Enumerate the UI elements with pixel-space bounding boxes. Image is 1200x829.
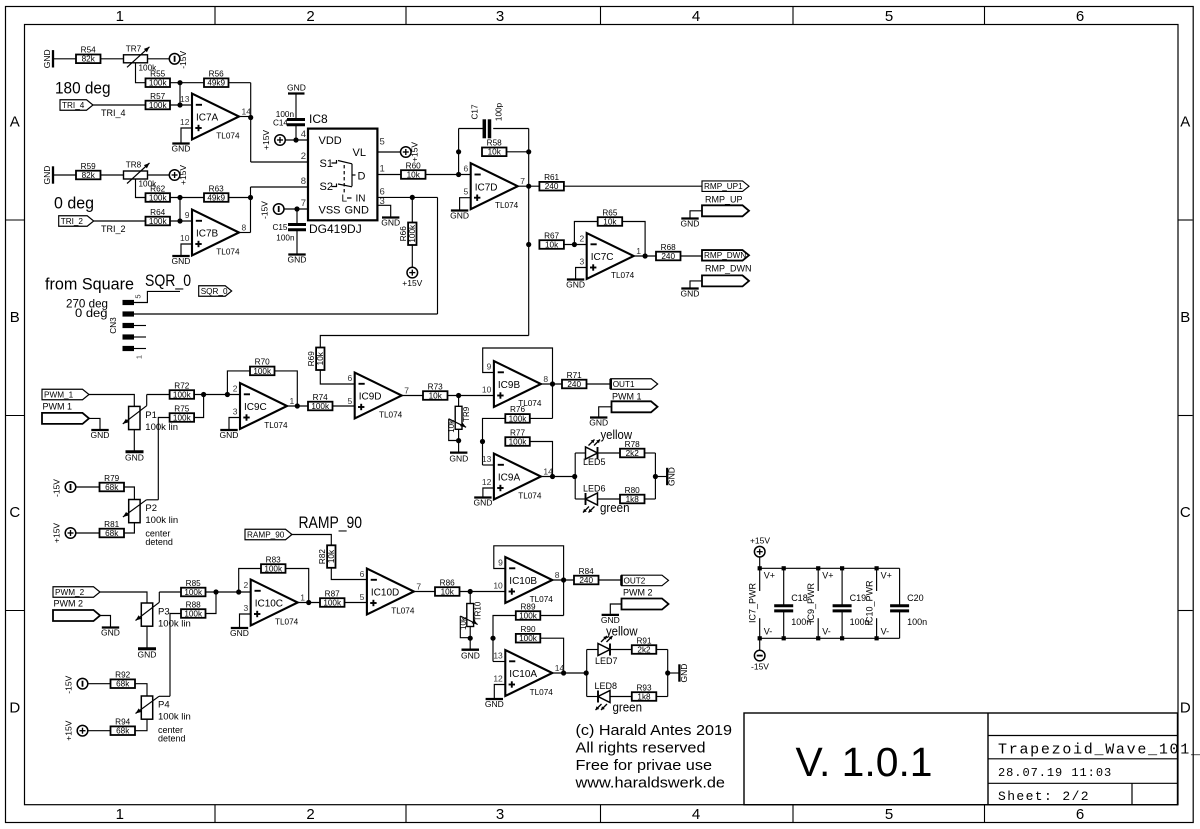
svg-text:C: C [1180, 504, 1191, 521]
svg-text:A: A [10, 113, 20, 130]
svg-text:RMP_UP1: RMP_UP1 [704, 182, 743, 191]
svg-text:GND: GND [220, 430, 239, 440]
svg-text:100k lin: 100k lin [145, 515, 178, 526]
svg-text:R74: R74 [313, 393, 328, 402]
svg-text:9: 9 [487, 362, 492, 372]
svg-text:+15V: +15V [261, 130, 271, 150]
svg-text:R60: R60 [406, 161, 421, 170]
svg-text:10k: 10k [327, 549, 336, 563]
svg-text:R54: R54 [81, 46, 96, 55]
svg-text:100k: 100k [408, 224, 417, 243]
svg-text:TL074: TL074 [216, 132, 240, 141]
svg-text:P3: P3 [158, 607, 170, 618]
svg-text:6: 6 [463, 164, 468, 174]
svg-text:100k: 100k [253, 367, 272, 376]
svg-text:R68: R68 [661, 243, 676, 252]
svg-text:180 deg: 180 deg [55, 80, 111, 98]
svg-text:1: 1 [636, 246, 641, 256]
svg-text:TL074: TL074 [611, 271, 635, 280]
svg-text:3: 3 [243, 603, 248, 613]
svg-text:R64: R64 [150, 208, 165, 217]
svg-text:82k: 82k [82, 55, 96, 64]
svg-text:R77: R77 [510, 428, 525, 437]
svg-text:V-: V- [822, 627, 831, 637]
svg-text:-15V: -15V [751, 662, 769, 672]
svg-text:GND: GND [450, 211, 469, 221]
svg-text:49k9: 49k9 [207, 79, 225, 88]
svg-text:V+: V+ [822, 571, 833, 581]
svg-text:R91: R91 [636, 636, 651, 645]
svg-text:13: 13 [493, 651, 503, 661]
svg-text:49k9: 49k9 [207, 193, 225, 202]
svg-text:9: 9 [185, 210, 190, 220]
svg-text:P4: P4 [158, 700, 170, 711]
svg-text:1: 1 [116, 8, 124, 25]
svg-text:L: L [342, 194, 348, 205]
svg-text:V+: V+ [881, 571, 892, 581]
svg-text:100k: 100k [173, 390, 192, 399]
svg-text:12: 12 [180, 117, 190, 127]
svg-text:IC10C: IC10C [255, 599, 283, 610]
svg-text:10k: 10k [545, 240, 559, 249]
svg-text:GND: GND [288, 255, 307, 265]
svg-text:R89: R89 [520, 602, 535, 611]
svg-text:D: D [1180, 699, 1191, 716]
svg-text:1: 1 [290, 396, 295, 406]
svg-text:5: 5 [360, 592, 365, 602]
svg-text:10k: 10k [316, 351, 325, 365]
svg-text:C: C [9, 504, 20, 521]
svg-text:100k: 100k [149, 101, 168, 110]
svg-text:5: 5 [380, 137, 385, 148]
svg-text:R79: R79 [104, 474, 119, 483]
svg-text:R88: R88 [186, 600, 201, 609]
svg-text:Sheet: 2/2: Sheet: 2/2 [998, 789, 1090, 804]
svg-text:S2: S2 [320, 181, 333, 193]
svg-text:10k: 10k [603, 217, 617, 226]
svg-text:www.haraldswerk.de: www.haraldswerk.de [574, 775, 725, 792]
svg-text:IC9C: IC9C [244, 402, 267, 413]
svg-text:100k: 100k [184, 609, 203, 618]
svg-text:68k: 68k [116, 727, 130, 736]
svg-text:1: 1 [300, 593, 305, 603]
svg-text:V. 1.0.1: V. 1.0.1 [796, 739, 933, 785]
svg-text:100k: 100k [173, 413, 192, 422]
svg-text:R80: R80 [625, 486, 640, 495]
svg-text:Trapezoid_Wave_101_: Trapezoid_Wave_101_ [998, 741, 1200, 758]
svg-text:R59: R59 [81, 162, 96, 171]
svg-text:OUT2: OUT2 [624, 576, 646, 585]
svg-text:OUT1: OUT1 [613, 380, 635, 389]
svg-text:LED8: LED8 [595, 681, 618, 691]
svg-text:D: D [9, 699, 20, 716]
svg-text:detend: detend [145, 537, 173, 547]
svg-text:green: green [613, 700, 643, 715]
svg-text:7: 7 [404, 386, 409, 396]
svg-text:IC7_PWR: IC7_PWR [748, 582, 758, 623]
svg-text:LED6: LED6 [583, 484, 606, 494]
svg-text:VDD: VDD [319, 135, 342, 147]
svg-text:Free for privae use: Free for privae use [576, 757, 713, 774]
svg-text:10: 10 [180, 233, 190, 243]
svg-text:IC7D: IC7D [475, 182, 498, 193]
svg-text:100k lin: 100k lin [145, 422, 178, 433]
svg-text:PWM 2: PWM 2 [54, 599, 84, 609]
svg-text:(c) Harald Antes 2019: (c) Harald Antes 2019 [576, 722, 733, 739]
svg-text:DG419DJ: DG419DJ [309, 222, 362, 236]
svg-text:VSS: VSS [319, 205, 341, 217]
svg-text:240: 240 [567, 380, 581, 389]
svg-text:TL074: TL074 [264, 421, 288, 430]
svg-text:5: 5 [134, 294, 143, 298]
svg-text:10k: 10k [447, 419, 456, 433]
svg-text:3: 3 [496, 8, 504, 25]
svg-text:CN3: CN3 [109, 317, 118, 334]
svg-text:VL: VL [353, 147, 366, 159]
svg-text:PWM 2: PWM 2 [623, 588, 653, 598]
svg-text:R78: R78 [625, 440, 640, 449]
svg-text:2: 2 [306, 8, 314, 25]
svg-text:R90: R90 [520, 625, 535, 634]
svg-text:GND: GND [461, 651, 480, 661]
svg-text:GND: GND [381, 218, 400, 228]
svg-text:14: 14 [242, 107, 252, 117]
svg-text:GND: GND [681, 289, 700, 299]
svg-text:GND: GND [230, 628, 249, 638]
svg-text:TRI_4: TRI_4 [62, 101, 85, 110]
svg-text:4: 4 [692, 806, 700, 823]
svg-text:+15V: +15V [64, 720, 74, 740]
svg-text:IC7B: IC7B [196, 229, 219, 240]
svg-text:IC10D: IC10D [371, 588, 399, 599]
svg-text:R73: R73 [428, 382, 443, 391]
svg-text:3: 3 [579, 257, 584, 267]
svg-text:100k lin: 100k lin [158, 712, 191, 723]
svg-text:yellow: yellow [606, 624, 638, 639]
svg-text:5: 5 [885, 8, 893, 25]
svg-text:IN: IN [356, 194, 366, 205]
svg-text:240: 240 [661, 252, 675, 261]
svg-text:TR8: TR8 [126, 161, 142, 170]
svg-text:GND: GND [679, 664, 689, 683]
svg-text:R82: R82 [318, 549, 327, 564]
svg-text:R58: R58 [487, 139, 502, 148]
svg-text:R66: R66 [399, 226, 408, 241]
svg-text:-15V: -15V [260, 201, 270, 219]
svg-text:12: 12 [493, 674, 503, 684]
svg-text:R57: R57 [150, 92, 165, 101]
svg-text:IC10A: IC10A [509, 669, 537, 680]
svg-text:SQR_0: SQR_0 [201, 287, 228, 296]
svg-text:IC8: IC8 [309, 112, 328, 126]
svg-text:R92: R92 [115, 671, 130, 680]
svg-text:SQR_0: SQR_0 [145, 272, 191, 290]
svg-text:100k: 100k [323, 598, 342, 607]
svg-text:R87: R87 [325, 589, 340, 598]
svg-text:LED7: LED7 [595, 656, 618, 666]
svg-text:6: 6 [347, 373, 352, 383]
svg-text:R85: R85 [186, 579, 201, 588]
svg-text:100k: 100k [184, 588, 203, 597]
svg-text:5: 5 [347, 396, 352, 406]
svg-text:C17: C17 [471, 104, 480, 119]
svg-text:100k: 100k [149, 79, 168, 88]
svg-text:100k: 100k [519, 634, 538, 643]
svg-text:TR7: TR7 [126, 44, 142, 53]
svg-text:PWM 1: PWM 1 [43, 402, 73, 412]
svg-text:100n: 100n [850, 617, 870, 627]
svg-text:R94: R94 [115, 718, 130, 727]
svg-text:GND: GND [681, 219, 700, 229]
svg-text:PWM_2: PWM_2 [55, 588, 85, 597]
svg-text:IC7C: IC7C [591, 252, 614, 263]
svg-text:GND: GND [589, 418, 608, 428]
svg-text:+15V: +15V [52, 523, 62, 543]
svg-text:GND: GND [345, 205, 370, 217]
svg-text:R83: R83 [266, 555, 281, 564]
svg-text:R72: R72 [174, 381, 189, 390]
svg-text:R67: R67 [544, 231, 559, 240]
svg-text:TL074: TL074 [495, 201, 519, 210]
svg-text:R56: R56 [209, 70, 224, 79]
svg-text:+15V: +15V [409, 142, 419, 162]
svg-text:10k: 10k [488, 148, 502, 157]
svg-text:V-: V- [881, 627, 890, 637]
svg-text:All rights reserved: All rights reserved [576, 739, 706, 756]
svg-text:GND: GND [449, 454, 468, 464]
svg-text:R84: R84 [579, 567, 594, 576]
svg-text:C20: C20 [907, 593, 924, 603]
svg-text:IC10B: IC10B [509, 576, 537, 587]
svg-text:8: 8 [543, 374, 548, 384]
svg-text:100k: 100k [149, 193, 168, 202]
svg-text:from Square: from Square [45, 276, 134, 294]
svg-text:R76: R76 [510, 405, 525, 414]
svg-text:240: 240 [579, 576, 593, 585]
svg-text:IC9B: IC9B [498, 380, 521, 391]
svg-text:-15V: -15V [178, 51, 188, 69]
svg-text:6: 6 [1076, 8, 1084, 25]
svg-text:A: A [1180, 113, 1190, 130]
svg-text:detend: detend [158, 734, 186, 744]
svg-text:100p: 100p [495, 102, 504, 121]
svg-text:10: 10 [482, 385, 492, 395]
svg-text:PWM_1: PWM_1 [44, 390, 74, 399]
svg-text:2: 2 [243, 580, 248, 590]
svg-text:B: B [1180, 309, 1190, 326]
svg-text:R55: R55 [150, 70, 165, 79]
svg-text:100n: 100n [907, 617, 927, 627]
svg-text:+15V: +15V [178, 165, 188, 185]
svg-text:TRI_4: TRI_4 [101, 108, 126, 118]
svg-text:R71: R71 [567, 371, 582, 380]
svg-text:6: 6 [1076, 806, 1084, 823]
svg-text:R70: R70 [255, 358, 270, 367]
svg-text:0 deg: 0 deg [75, 306, 108, 320]
svg-text:10k: 10k [459, 616, 468, 630]
svg-text:TL074: TL074 [391, 607, 415, 616]
svg-text:68k: 68k [105, 529, 119, 538]
svg-text:100k: 100k [519, 611, 538, 620]
svg-text:D: D [358, 171, 366, 183]
svg-text:RMP_UP: RMP_UP [705, 195, 743, 205]
svg-text:R65: R65 [602, 208, 617, 217]
svg-text:8: 8 [301, 176, 306, 187]
svg-text:GND: GND [473, 498, 492, 508]
svg-text:100k: 100k [509, 414, 528, 423]
svg-text:10k: 10k [407, 170, 421, 179]
svg-text:GND: GND [138, 650, 157, 660]
svg-text:R93: R93 [636, 683, 651, 692]
svg-text:2: 2 [579, 234, 584, 244]
svg-text:6: 6 [360, 569, 365, 579]
svg-text:LED5: LED5 [583, 457, 606, 467]
svg-text:240: 240 [545, 182, 559, 191]
svg-text:RMP_DWN: RMP_DWN [705, 264, 752, 274]
svg-text:GND: GND [172, 144, 191, 154]
svg-text:2: 2 [233, 384, 238, 394]
svg-text:C14: C14 [273, 119, 288, 128]
svg-text:100k: 100k [149, 217, 168, 226]
svg-text:GND: GND [485, 699, 504, 709]
svg-text:GND: GND [101, 628, 120, 638]
svg-text:TL074: TL074 [530, 688, 554, 697]
svg-text:S1: S1 [320, 158, 333, 170]
svg-text:RAMP_90: RAMP_90 [247, 530, 285, 539]
svg-text:GND: GND [42, 49, 52, 68]
svg-text:-15V: -15V [52, 479, 62, 497]
svg-text:10: 10 [493, 581, 503, 591]
svg-text:1: 1 [380, 164, 385, 175]
svg-text:1: 1 [135, 355, 144, 359]
svg-text:V+: V+ [764, 571, 775, 581]
svg-text:GND: GND [172, 256, 191, 266]
svg-text:0 deg: 0 deg [54, 195, 94, 213]
svg-text:C19: C19 [850, 593, 867, 603]
svg-text:82k: 82k [82, 171, 96, 180]
svg-text:TL074: TL074 [216, 248, 240, 257]
svg-text:100n: 100n [791, 617, 811, 627]
svg-text:68k: 68k [116, 680, 130, 689]
svg-text:R81: R81 [104, 520, 119, 529]
svg-text:7: 7 [520, 176, 525, 186]
svg-text:TR9: TR9 [462, 406, 471, 422]
svg-text:TRI_2: TRI_2 [61, 217, 84, 226]
svg-text:3: 3 [233, 407, 238, 417]
svg-text:10k: 10k [429, 391, 443, 400]
svg-text:100n: 100n [276, 234, 295, 243]
svg-text:IC7A: IC7A [196, 113, 219, 124]
svg-text:TL074: TL074 [275, 618, 299, 627]
svg-text:TL074: TL074 [379, 411, 403, 420]
svg-text:R61: R61 [544, 173, 559, 182]
svg-text:R75: R75 [174, 404, 189, 413]
svg-text:3: 3 [496, 806, 504, 823]
svg-text:TL074: TL074 [518, 492, 542, 501]
svg-text:2k2: 2k2 [637, 645, 651, 654]
svg-text:1: 1 [116, 806, 124, 823]
svg-text:-15V: -15V [64, 675, 74, 693]
svg-text:100k: 100k [509, 437, 528, 446]
svg-text:4: 4 [692, 8, 700, 25]
svg-text:R69: R69 [307, 351, 316, 366]
svg-text:2k2: 2k2 [626, 449, 640, 458]
svg-text:GND: GND [667, 467, 677, 486]
svg-text:28.07.19 11:03: 28.07.19 11:03 [998, 766, 1112, 780]
svg-text:TRI_2: TRI_2 [101, 224, 126, 234]
svg-text:PWM 1: PWM 1 [612, 392, 642, 402]
svg-text:100k lin: 100k lin [158, 619, 191, 630]
svg-text:P1: P1 [145, 410, 157, 421]
svg-text:7: 7 [301, 198, 306, 209]
svg-text:RAMP_90: RAMP_90 [299, 514, 363, 532]
svg-text:B: B [10, 309, 20, 326]
svg-text:V-: V- [764, 627, 773, 637]
svg-text:TR10: TR10 [473, 601, 482, 621]
svg-text:100k: 100k [264, 564, 283, 573]
svg-text:IC9A: IC9A [498, 473, 521, 484]
svg-text:RMP_DWN: RMP_DWN [704, 251, 746, 260]
svg-text:GND: GND [566, 280, 585, 290]
svg-text:2: 2 [306, 806, 314, 823]
svg-text:5: 5 [463, 187, 468, 197]
svg-text:8: 8 [555, 570, 560, 580]
svg-text:R63: R63 [209, 184, 224, 193]
svg-text:R62: R62 [150, 184, 165, 193]
svg-text:8: 8 [242, 223, 247, 233]
svg-text:GND: GND [125, 453, 144, 463]
svg-text:13: 13 [482, 454, 492, 464]
svg-text:4: 4 [301, 129, 306, 140]
svg-text:12: 12 [482, 477, 492, 487]
svg-text:9: 9 [498, 558, 503, 568]
svg-text:GND: GND [42, 166, 52, 185]
svg-text:GND: GND [287, 83, 306, 93]
svg-text:IC9D: IC9D [359, 392, 382, 403]
svg-text:+15V: +15V [402, 278, 422, 288]
svg-text:100k: 100k [311, 402, 330, 411]
svg-text:10k: 10k [441, 587, 455, 596]
svg-text:68k: 68k [105, 483, 119, 492]
svg-text:13: 13 [180, 94, 190, 104]
svg-text:green: green [600, 500, 630, 515]
svg-text:R86: R86 [440, 578, 455, 587]
svg-text:GND: GND [91, 430, 110, 440]
svg-text:5: 5 [885, 806, 893, 823]
svg-text:+15V: +15V [750, 536, 770, 546]
svg-text:7: 7 [416, 582, 421, 592]
svg-text:2: 2 [301, 151, 306, 162]
svg-text:C18: C18 [791, 593, 808, 603]
svg-text:P2: P2 [145, 503, 157, 514]
svg-text:C15: C15 [272, 223, 287, 232]
